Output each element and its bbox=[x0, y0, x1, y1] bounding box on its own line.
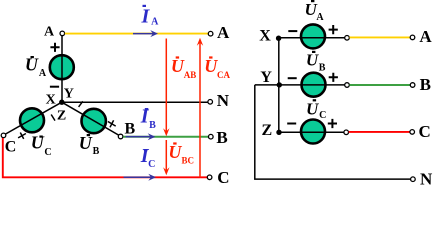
source U_C (circle) bbox=[20, 108, 44, 132]
source U_B (circle) bbox=[82, 109, 106, 133]
svg-text:B: B bbox=[319, 63, 326, 74]
wire: line B right (green) bbox=[350, 84, 411, 86]
svg-text:B: B bbox=[93, 146, 100, 157]
svg-text:U: U bbox=[168, 142, 182, 162]
svg-text:CA: CA bbox=[217, 70, 230, 80]
minus mark of U_A bbox=[50, 86, 59, 88]
wire: line B (green) bbox=[123, 136, 208, 138]
wire: Z row horizontal bbox=[279, 131, 344, 133]
svg-text:C: C bbox=[418, 122, 430, 141]
wire: neutral bus (down and right to N) bbox=[255, 85, 411, 179]
svg-text:N: N bbox=[420, 169, 433, 186]
plus mark U_B right bbox=[329, 73, 338, 82]
svg-text:U: U bbox=[306, 51, 319, 70]
svg-text:A: A bbox=[39, 68, 47, 79]
svg-text:C: C bbox=[5, 138, 17, 155]
wire: line A right (yellow) bbox=[350, 36, 411, 38]
terminal N right end bbox=[411, 177, 416, 182]
svg-text:Y: Y bbox=[64, 87, 74, 102]
source U_B right (circle) bbox=[302, 73, 326, 97]
svg-text:C: C bbox=[148, 159, 155, 170]
svg-text:Z: Z bbox=[57, 109, 66, 124]
terminal A right end bbox=[410, 35, 415, 40]
svg-text:A: A bbox=[44, 24, 55, 39]
svg-text:B: B bbox=[124, 120, 135, 137]
voltage arrow U_CA (red, up) bbox=[197, 38, 203, 178]
source U_A right (circle) bbox=[301, 24, 325, 48]
wire: Y row horizontal bbox=[255, 84, 345, 86]
terminal C right end bbox=[410, 130, 415, 135]
plus tick on U_C branch (rotated plus) bbox=[18, 133, 26, 139]
minus mark U_A right bbox=[288, 30, 297, 32]
minus tick on U_C branch bbox=[51, 115, 55, 121]
svg-text:C: C bbox=[44, 147, 51, 158]
wire: star point to terminal B (diagonal) bbox=[62, 102, 120, 135]
current arrow I_B bbox=[126, 133, 156, 140]
plus mark U_A right bbox=[329, 25, 338, 34]
svg-text:C: C bbox=[217, 168, 229, 186]
plus mark of U_A bbox=[50, 43, 59, 52]
plus mark U_C right bbox=[328, 119, 337, 128]
star point node bbox=[59, 100, 64, 105]
node Z bbox=[276, 130, 281, 135]
svg-text:I: I bbox=[141, 5, 151, 27]
terminal A (open circle) bbox=[60, 31, 65, 36]
terminal A right (open circle) bbox=[208, 31, 213, 36]
wire: neutral N (black) bbox=[62, 101, 208, 103]
terminal after U_A right bbox=[345, 36, 350, 41]
terminal C (open circle) bbox=[1, 133, 6, 138]
wire: phase A vertical from terminal A down to star point bbox=[61, 35, 63, 102]
svg-text:Y: Y bbox=[260, 69, 272, 86]
svg-text:B: B bbox=[420, 75, 431, 94]
terminal C right (open circle) bbox=[207, 175, 212, 180]
svg-text:Z: Z bbox=[261, 122, 272, 139]
voltage arrow U_AB (red, down) bbox=[163, 39, 169, 137]
voltage arrow U_BC (red, down) bbox=[163, 140, 169, 175]
svg-text:BC: BC bbox=[182, 156, 195, 166]
wire: X-Y-Z vertical bus bbox=[278, 38, 280, 132]
svg-text:A: A bbox=[316, 12, 324, 23]
current arrow I_A bbox=[133, 30, 158, 37]
minus mark U_B right bbox=[288, 77, 297, 79]
node X bbox=[276, 36, 281, 41]
terminal B (open circle) bbox=[118, 134, 123, 139]
svg-text:B: B bbox=[149, 120, 156, 131]
svg-text:B: B bbox=[216, 128, 227, 147]
wire: line C (red, down then right) bbox=[3, 138, 207, 177]
terminal after U_C right bbox=[344, 130, 349, 135]
terminal B right end bbox=[410, 83, 415, 88]
terminal after U_B right bbox=[345, 83, 350, 88]
minus mark U_C right bbox=[287, 123, 296, 125]
svg-text:U: U bbox=[79, 133, 93, 153]
source U_A (circle) bbox=[50, 55, 74, 79]
svg-text:C: C bbox=[319, 110, 326, 121]
plus tick on U_B branch (rotated plus) bbox=[108, 120, 116, 127]
node Y bbox=[277, 82, 282, 87]
svg-text:A: A bbox=[151, 17, 159, 28]
wire: line C right (red) bbox=[349, 131, 410, 133]
terminal B right (open circle) bbox=[209, 134, 214, 139]
svg-text:X: X bbox=[46, 93, 56, 108]
wire: line A (yellow) bbox=[65, 33, 209, 35]
wire: X row horizontal bbox=[279, 37, 345, 39]
minus tick on U_B branch bbox=[79, 101, 83, 107]
svg-text:X: X bbox=[259, 28, 271, 45]
svg-text:A: A bbox=[217, 23, 230, 42]
source U_C right (circle) bbox=[301, 120, 325, 144]
svg-text:A: A bbox=[419, 27, 432, 46]
wire: star point to terminal C (diagonal) bbox=[5, 102, 62, 134]
svg-text:U: U bbox=[31, 132, 45, 152]
current arrow I_C bbox=[124, 174, 157, 181]
svg-text:N: N bbox=[217, 91, 230, 110]
svg-text:AB: AB bbox=[184, 70, 197, 80]
terminal N (open circle) bbox=[208, 100, 213, 105]
svg-text:U: U bbox=[306, 100, 319, 119]
